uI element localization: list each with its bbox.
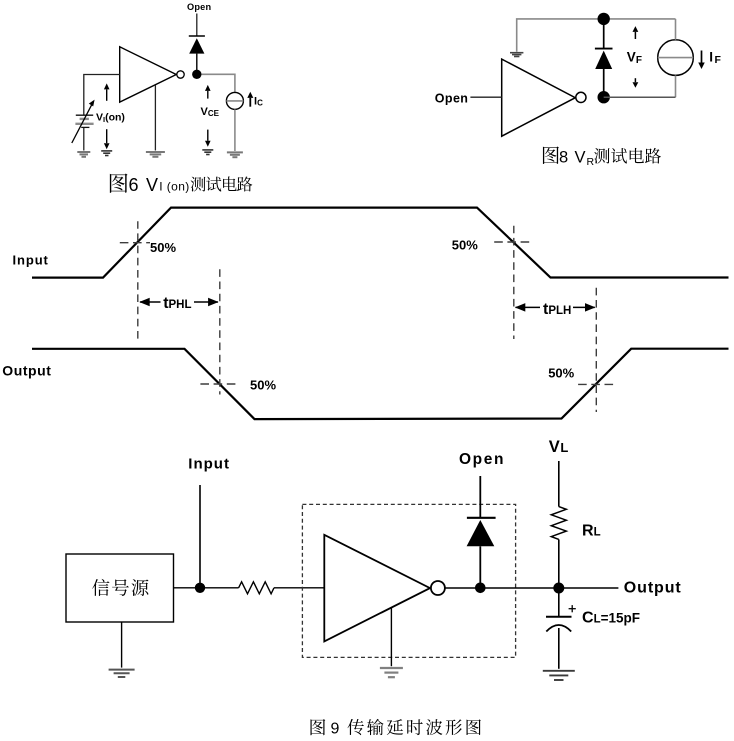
- current source I1 (Ic): [226, 92, 243, 109]
- svg-text:Output: Output: [2, 362, 51, 378]
- svg-text:VL: VL: [549, 438, 569, 456]
- caption fig6: [110, 174, 252, 195]
- node D (input junction): [195, 583, 205, 593]
- wire CL to ground: [558, 628, 560, 669]
- label tPHL measurement arrow: [140, 301, 218, 303]
- op-amp U1 inverter fig6: [120, 47, 185, 102]
- capacitor CL (polarized): [546, 617, 572, 632]
- dashed DUT box: [302, 504, 515, 657]
- node B (fig8 top): [598, 13, 610, 25]
- label VF down arrow: [633, 78, 639, 88]
- svg-text:Open: Open: [435, 91, 469, 105]
- svg-text:V: V: [575, 149, 586, 167]
- diode D3 fig9: [467, 476, 496, 584]
- ground (small, under VI(on) arrow): [101, 151, 112, 156]
- svg-text:50%: 50%: [250, 378, 276, 393]
- node C (fig8 output): [598, 91, 610, 103]
- node tPLH right reference dashed line: [595, 288, 597, 412]
- wire input net fig6: [84, 75, 120, 115]
- signal source box 信号源: [66, 554, 174, 622]
- label + polarity: [569, 605, 576, 612]
- resistor RL: [551, 507, 566, 540]
- svg-text:R: R: [587, 156, 595, 168]
- label Ic arrow: [247, 92, 253, 107]
- wire node F to capacitor CL: [558, 588, 560, 617]
- node tPLH left reference dashed line: [513, 226, 515, 339]
- svg-text:50%: 50%: [150, 240, 176, 255]
- wire bottom net fig8: [604, 96, 676, 98]
- resistor R1 (series): [239, 582, 274, 594]
- wire output waveform trace: [32, 349, 729, 419]
- wire source box to ground: [121, 622, 123, 668]
- battery V1 variable source VI(on): [75, 115, 93, 150]
- svg-text:V: V: [146, 175, 158, 195]
- caption fig8: [543, 146, 661, 168]
- node tPHL right reference dashed line: [219, 269, 221, 394]
- wire VL to RL: [558, 461, 560, 507]
- wire resistor to U3: [274, 587, 324, 589]
- ground (under battery): [77, 152, 90, 157]
- label VI(on) up arrow: [104, 83, 110, 100]
- label VF up arrow: [633, 26, 639, 39]
- wire inverter U1 ground leg: [154, 85, 156, 151]
- svg-text:VI(on): VI(on): [96, 111, 125, 123]
- svg-text:50%: 50%: [452, 238, 478, 253]
- op-amp U2 inverter fig8: [502, 59, 586, 136]
- wire source box to node D: [174, 587, 239, 589]
- ground (under U1): [146, 152, 165, 157]
- label IF arrow: [698, 51, 705, 70]
- ground (under U3): [380, 668, 403, 677]
- wire U3 ground leg: [390, 608, 392, 667]
- svg-text:Input: Input: [188, 456, 230, 473]
- node E (diode junction): [475, 583, 486, 594]
- wire node A to current source I1: [202, 74, 235, 92]
- svg-text:Open: Open: [459, 451, 505, 468]
- op-amp U3 inverter fig9: [324, 535, 445, 642]
- diode D1: [189, 36, 205, 70]
- wire right net fig8: [675, 19, 677, 40]
- arrow across battery (variable): [72, 100, 95, 143]
- wire input waveform trace: [32, 208, 729, 278]
- ground (under source box): [109, 670, 135, 677]
- wire 50% tick input rising: [120, 242, 150, 244]
- wire I1 to ground: [234, 109, 236, 151]
- label tPLH measurement arrow: [516, 306, 595, 308]
- svg-text:50%: 50%: [548, 366, 574, 381]
- label VCE up arrow: [205, 85, 211, 99]
- wire 50% tick output falling: [200, 383, 238, 385]
- svg-text:Open: Open: [187, 2, 211, 12]
- node A (fig6 output): [192, 70, 201, 79]
- wire top net fig8: [517, 19, 676, 52]
- wire Open to U2: [470, 96, 501, 98]
- ground (fig8 top-left): [510, 53, 523, 57]
- current source I2 (IF): [658, 40, 694, 76]
- node F (output junction): [553, 583, 564, 594]
- label VI(on) down arrow: [104, 129, 110, 149]
- node tPHL left reference dashed line: [137, 221, 139, 339]
- wire RL to node F: [558, 539, 560, 588]
- svg-text:8: 8: [559, 149, 568, 167]
- ground (under CL): [543, 671, 575, 680]
- svg-text:9: 9: [331, 721, 340, 738]
- wire U3 output net: [445, 587, 619, 589]
- wire 50% tick input falling: [494, 241, 533, 243]
- wire I2 to bottom net fig8: [675, 75, 677, 97]
- diode D2 fig8: [595, 19, 613, 92]
- svg-text:I (on): I (on): [159, 179, 189, 193]
- ground (small, under VCE arrow): [202, 150, 213, 155]
- svg-text:Output: Output: [624, 580, 682, 597]
- svg-text:CL=15pF: CL=15pF: [582, 610, 640, 627]
- label VCE down arrow: [205, 130, 211, 147]
- wire Open to diode D1: [196, 14, 198, 37]
- wire Input stub fig9: [199, 485, 201, 588]
- caption fig9: [310, 719, 480, 738]
- svg-text:6: 6: [129, 175, 139, 195]
- ground (under I1): [227, 152, 243, 157]
- svg-text:Input: Input: [13, 252, 49, 267]
- wire 50% tick output rising: [578, 383, 615, 385]
